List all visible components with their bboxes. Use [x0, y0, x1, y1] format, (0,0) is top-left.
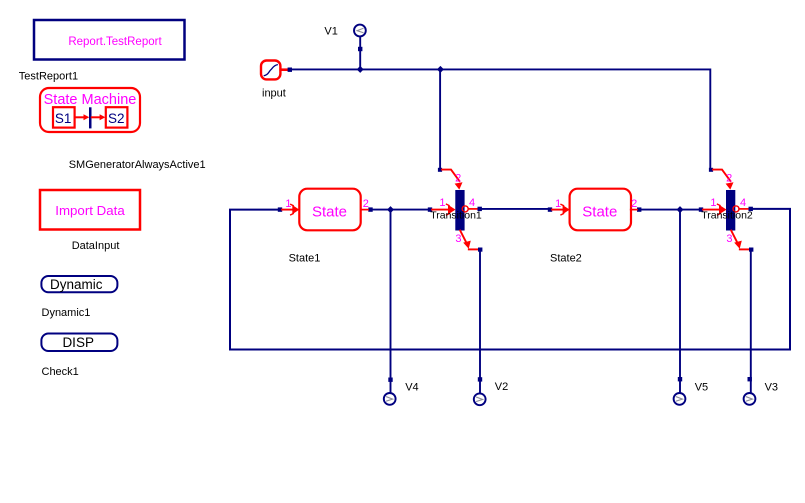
Transition1 pin3 connector square	[478, 248, 482, 252]
wire V1 stem	[359, 37, 361, 69]
Transition2 pin4 connector square	[749, 207, 753, 211]
svg-text:State1: State1	[289, 253, 321, 265]
State1 pin1 connector square	[278, 207, 282, 211]
svg-text:S2: S2	[108, 111, 125, 126]
svg-text:V3: V3	[765, 382, 778, 394]
Transition2 pin2 hook arrow	[713, 170, 730, 181]
transition Transition2	[699, 168, 754, 252]
svg-text:Import Data: Import Data	[55, 203, 125, 218]
State2 pin2 connector square	[637, 207, 641, 211]
wire top rail from input to right corner down	[292, 69, 710, 168]
State2 pin1 arrow	[552, 209, 563, 211]
Transition1 pin4 circle	[462, 206, 468, 212]
svg-text:1: 1	[710, 197, 716, 209]
wire V4 stem	[390, 210, 392, 393]
transition arrow S1 to bar	[75, 116, 84, 118]
State1 pin2 connector square	[368, 207, 372, 211]
svg-text:V2: V2	[495, 381, 508, 393]
Transition2 pin2 feed square	[709, 168, 713, 172]
svg-text:DataInput: DataInput	[72, 240, 120, 252]
svg-text:Transition1: Transition1	[430, 209, 482, 221]
wire V2 stem from Transition1 pin3	[479, 251, 481, 393]
Transition1 pin2 feed square	[438, 168, 442, 172]
Transition1 pin1 connector square	[428, 207, 432, 211]
state S2	[106, 107, 128, 127]
svg-text:3: 3	[726, 233, 732, 245]
svg-text:State: State	[312, 204, 347, 221]
wire V3 stem from Transition2 pin3	[750, 251, 752, 393]
junction top wire / V1	[357, 66, 364, 73]
svg-text:V5: V5	[695, 382, 708, 394]
svg-text:V4: V4	[405, 382, 418, 394]
svg-text:Check1: Check1	[42, 366, 79, 378]
state S1	[53, 107, 75, 127]
probe V1	[354, 25, 366, 52]
svg-text:1: 1	[439, 197, 445, 209]
svg-text:2: 2	[726, 172, 732, 184]
svg-text:2: 2	[455, 172, 461, 184]
report block TestReport1	[34, 20, 185, 60]
Transition2 pin4 circle	[733, 206, 739, 212]
check block Check1	[41, 334, 117, 352]
Transition2 pin1 arrow	[703, 209, 720, 211]
junction State1 pin2 / V4	[387, 206, 394, 213]
State2 pin1 connector square	[548, 207, 552, 211]
svg-text:2: 2	[363, 198, 369, 210]
input source block	[261, 61, 292, 80]
state machine block SMGeneratorAlwaysActive1	[40, 88, 140, 132]
Transition2 bar	[726, 190, 735, 231]
Transition1 pin2 hook arrow	[442, 170, 459, 181]
wire V5 stem	[679, 210, 681, 393]
Transition2 pin3 arrow	[731, 231, 737, 244]
svg-text:S1: S1	[55, 111, 72, 126]
junction top wire / Transition1 feed	[437, 66, 444, 73]
svg-text:DISP: DISP	[62, 335, 94, 350]
svg-text:3: 3	[455, 233, 461, 245]
probe V4	[384, 378, 396, 405]
svg-text:2: 2	[631, 198, 637, 210]
transition Transition1	[428, 168, 483, 252]
svg-text:V1: V1	[324, 25, 337, 37]
wire State2 pin2 to Transition2 pin1	[641, 209, 700, 211]
wire loop: State1 pin1 left, bottom bus, right vertical to Transition2 pin4	[230, 209, 790, 350]
svg-text:State2: State2	[550, 253, 582, 265]
svg-text:1: 1	[285, 198, 291, 210]
svg-text:State: State	[582, 204, 617, 221]
wire branch down to Transition1 pin2	[439, 69, 441, 168]
State1 pin1 arrow	[282, 209, 293, 211]
wire Transition1 pin4 to State2 pin1	[482, 208, 548, 210]
probe V5	[674, 377, 686, 405]
svg-text:SMGeneratorAlwaysActive1: SMGeneratorAlwaysActive1	[69, 159, 206, 171]
svg-text:TestReport1: TestReport1	[19, 71, 78, 83]
svg-text:1: 1	[555, 198, 561, 210]
Transition1 pin3 arrow	[460, 231, 466, 244]
svg-text:Report.TestReport: Report.TestReport	[68, 36, 162, 48]
import data block DataInput	[40, 190, 140, 230]
Transition2 pin3 connector square	[749, 248, 753, 252]
wire State1 pin2 to Transition1 pin1	[372, 209, 428, 211]
state State2	[548, 189, 642, 231]
svg-text:4: 4	[469, 197, 475, 209]
transition bar	[89, 107, 92, 128]
Transition1 bar	[455, 190, 464, 231]
svg-text:Transition2: Transition2	[701, 209, 753, 221]
Transition2 pin1 connector square	[699, 207, 703, 211]
svg-text:Dynamic1: Dynamic1	[42, 307, 91, 319]
state State1	[278, 189, 373, 231]
transition arrow bar to S2	[92, 116, 100, 118]
probe V3	[744, 377, 756, 405]
junction State2 pin2 / V5	[677, 206, 684, 213]
svg-text:4: 4	[740, 197, 746, 209]
svg-text:input: input	[262, 88, 286, 100]
probe V2	[474, 377, 486, 405]
Transition1 pin4 connector square	[478, 207, 482, 211]
Transition1 pin1 arrow	[432, 209, 449, 211]
svg-text:Dynamic: Dynamic	[50, 277, 103, 292]
svg-text:State Machine: State Machine	[44, 92, 137, 108]
dynamic block Dynamic1	[41, 276, 117, 292]
